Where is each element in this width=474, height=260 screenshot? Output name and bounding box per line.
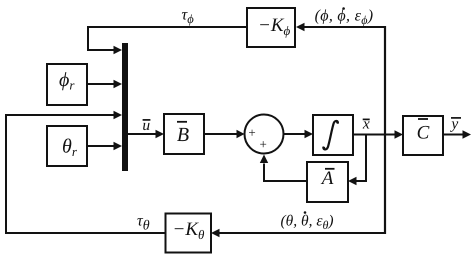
wire summing junction to integrator — [284, 130, 314, 138]
block integrator — [313, 115, 353, 155]
svg-text:x: x — [362, 116, 370, 133]
label (phi, phidot, eps_phi) — [315, 7, 374, 27]
wire bottom-left return into mixer bar — [6, 111, 166, 233]
wire from -Kphi left, down and into mixer bar — [88, 27, 247, 54]
wire top feedback horizontal into -Kphi — [296, 23, 385, 31]
wire mixer bar to B — [128, 130, 164, 138]
wire B to summing junction — [204, 130, 245, 138]
svg-text:(θ, θ, εθ): (θ, θ, εθ) — [280, 213, 333, 233]
block phi_r — [47, 64, 87, 105]
wire C to output y — [443, 130, 471, 138]
block A — [307, 162, 348, 202]
block theta_r — [47, 126, 87, 166]
block C — [403, 116, 443, 155]
label integral sign — [323, 121, 338, 149]
wire bottom feedback into -Ktheta — [211, 229, 385, 237]
svg-text:A: A — [320, 168, 334, 189]
svg-text:+: + — [260, 137, 267, 152]
wire tap from x down into A — [348, 135, 366, 186]
svg-text:(ϕ, ϕ, εϕ): (ϕ, ϕ, εϕ) — [315, 8, 374, 28]
wire integrator to C (crosses feedback line) — [353, 130, 403, 138]
label y bar — [449, 116, 461, 133]
block -Ktheta — [166, 214, 212, 253]
label x bar — [362, 116, 370, 133]
wire phi_r to mixer bar — [87, 80, 122, 88]
svg-text:τθ: τθ — [137, 213, 150, 234]
label (theta, thetadot, eps_theta) — [280, 211, 333, 232]
label C bar — [417, 119, 430, 144]
wire A to summing junction bottom — [260, 155, 307, 182]
label A bar — [320, 168, 335, 189]
block -Kphi — [247, 8, 295, 47]
label u bar — [142, 117, 150, 134]
node feedback tap vertical line x=385 — [384, 26, 386, 234]
svg-text:τϕ: τϕ — [182, 7, 195, 27]
block B — [164, 114, 204, 154]
wire theta_r to mixer bar — [87, 142, 122, 150]
summing junction circle — [245, 115, 284, 154]
svg-text:B: B — [177, 124, 189, 146]
svg-text:C: C — [417, 123, 430, 144]
svg-text:+: + — [248, 125, 255, 140]
mixer bar — [122, 43, 128, 171]
label B bar — [177, 122, 189, 146]
